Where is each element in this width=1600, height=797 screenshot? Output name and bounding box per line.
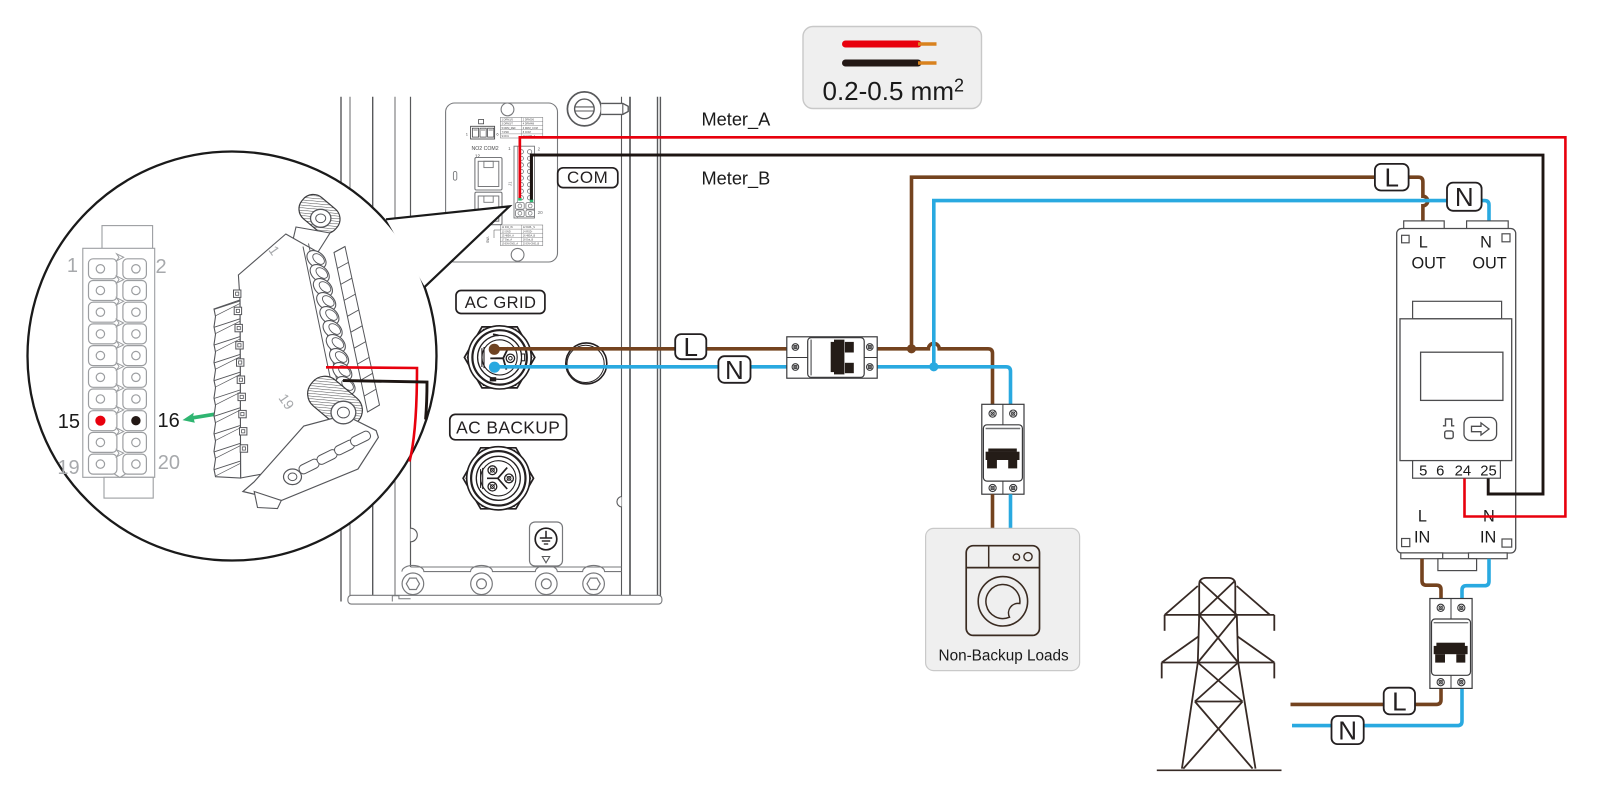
svg-text:1: 1 [67, 255, 78, 277]
svg-text:L: L [1392, 687, 1406, 717]
svg-text:IN: IN [1414, 529, 1430, 547]
svg-text:L: L [1384, 163, 1398, 193]
svg-text:12 DWL_S: 12 DWL_S [523, 226, 535, 229]
svg-text:20: 20 [538, 210, 544, 215]
svg-text:20 EN-GND_B: 20 EN-GND_B [523, 243, 540, 246]
svg-text:1 DRM1/5: 1 DRM1/5 [502, 119, 514, 122]
svg-text:J1: J1 [508, 181, 513, 186]
svg-text:20: 20 [158, 452, 180, 474]
svg-text:IN: IN [1480, 529, 1496, 547]
svg-text:14 RSD-: 14 RSD- [523, 230, 533, 233]
svg-text:AC GRID: AC GRID [465, 294, 537, 312]
svg-text:2: 2 [156, 256, 167, 278]
svg-text:OUT: OUT [1472, 255, 1506, 273]
svg-text:AC BACKUP: AC BACKUP [456, 418, 560, 438]
svg-text:11 DI4_IN: 11 DI4_IN [502, 226, 513, 229]
svg-text:13 GND: 13 GND [502, 230, 511, 233]
svg-text:L: L [1419, 234, 1428, 252]
svg-text:L: L [1418, 507, 1427, 525]
svg-text:7 RSD: 7 RSD [502, 131, 510, 134]
svg-text:16: 16 [158, 410, 180, 432]
svg-text:OUT: OUT [1412, 255, 1446, 273]
svg-text:15: 15 [58, 411, 80, 433]
svg-text:N: N [1480, 234, 1492, 252]
svg-text:9 DO1: 9 DO1 [502, 135, 510, 138]
svg-text:8 COM: 8 COM [523, 131, 531, 134]
svg-text:4 DRM4/8: 4 DRM4/8 [523, 123, 535, 126]
svg-text:N: N [725, 355, 744, 385]
svg-text:19: 19 [57, 457, 79, 479]
svg-text:19 EN-GND_A: 19 EN-GND_A [502, 243, 519, 246]
svg-text:2: 2 [538, 147, 541, 152]
svg-text:Meter_B: Meter_B [702, 168, 771, 189]
svg-text:L: L [683, 332, 697, 362]
svg-text:N: N [1455, 182, 1474, 212]
svg-text:6: 6 [1436, 464, 1444, 480]
svg-text:16 485A_B: 16 485A_B [523, 234, 536, 237]
svg-text:3 DRM3/7: 3 DRM3/7 [502, 123, 514, 126]
svg-text:Meter_A: Meter_A [702, 110, 772, 131]
svg-text:0.2-0.5 mm2: 0.2-0.5 mm2 [823, 76, 965, 107]
svg-text:5: 5 [1419, 464, 1427, 480]
svg-text:6 DRM_COM: 6 DRM_COM [523, 127, 538, 130]
svg-text:SW-: SW- [486, 235, 490, 243]
svg-text:N: N [1338, 716, 1357, 746]
svg-text:25: 25 [1480, 464, 1496, 480]
svg-text:5 DRM_REF: 5 DRM_REF [502, 127, 517, 130]
svg-text:COM: COM [567, 168, 608, 187]
svg-text:17 Dat_A: 17 Dat_A [502, 239, 513, 242]
svg-text:18 Dat_B: 18 Dat_B [523, 239, 534, 242]
svg-text:2 DRM2/6: 2 DRM2/6 [523, 119, 535, 122]
svg-text:Non-Backup Loads: Non-Backup Loads [939, 647, 1069, 664]
svg-text:24: 24 [1455, 464, 1471, 480]
svg-text:NO2 COM2: NO2 COM2 [472, 146, 499, 152]
svg-text:15 485A_A: 15 485A_A [502, 234, 515, 237]
svg-text:1: 1 [508, 146, 511, 151]
